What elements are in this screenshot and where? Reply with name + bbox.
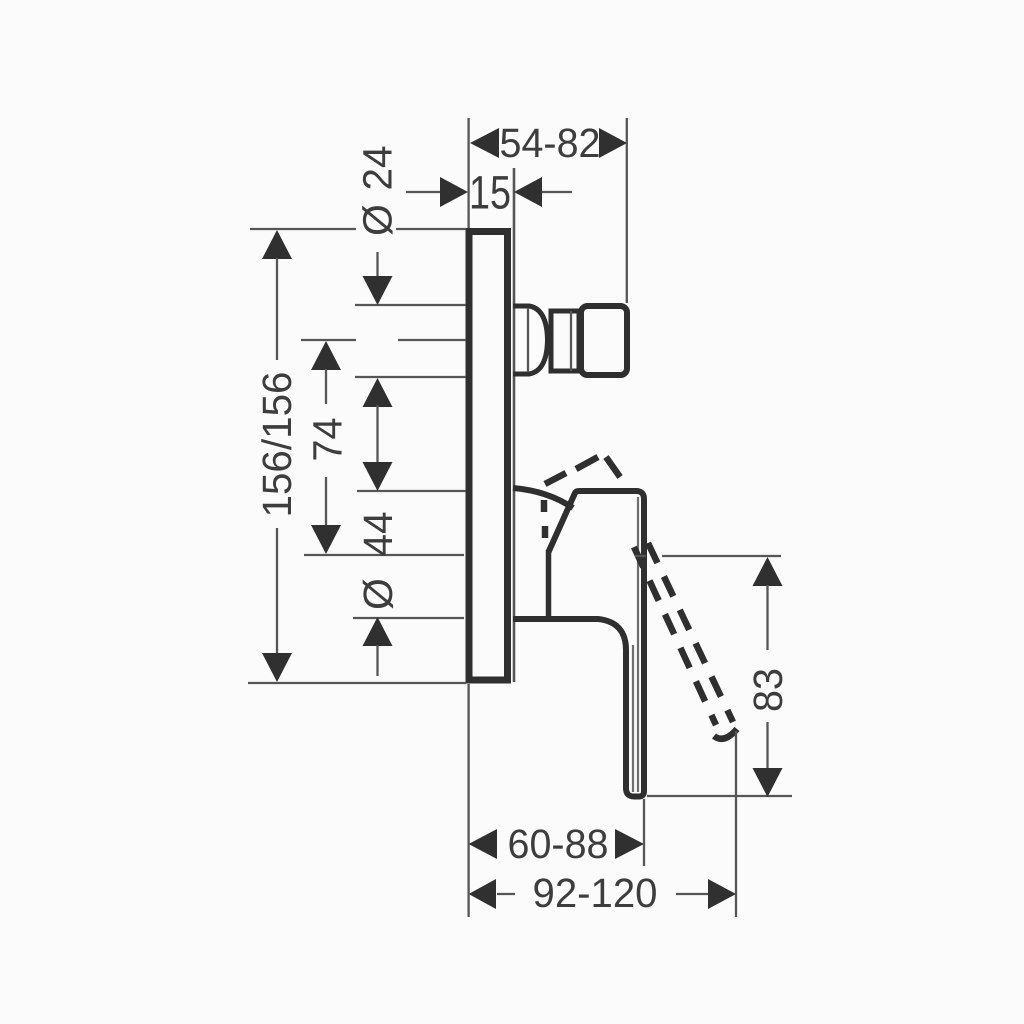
dim 92-120 tail left [497,893,515,895]
dim 15 tail right [542,191,572,193]
axis line hub right [662,555,781,557]
dim 156/156 arrow bottom [262,653,292,682]
dim 54-82 arrow right [599,128,627,158]
dim 74 arrow top [311,341,341,370]
ext line plate top left [250,228,466,230]
ext line knob front top [626,118,628,303]
ext line dashed tip bottom [735,731,737,917]
dim 156/156 line top [276,258,278,360]
top knob collar [513,306,548,374]
ext line left bottom [467,684,469,917]
lever inner contour right [637,497,639,792]
svg-text:83: 83 [745,668,791,712]
handle hub top arc [513,488,573,508]
ext line knob bottom left [355,376,466,378]
axis line hub left [304,554,464,556]
axis tick on lever [635,555,646,557]
dim 74 arrow bottom [311,525,341,554]
dim diam44 arrow middle down [363,462,393,491]
dim 60-88 arrow left [469,829,497,859]
collar inner line [527,308,529,372]
svg-text:60-88: 60-88 [508,821,609,867]
dashed lever up position hidden edge [544,500,545,538]
dashed lever out position edge A [648,543,733,722]
dashed lever out position edge B [634,547,716,725]
dim 83 stem top [766,585,768,650]
ext line plate bottom left [248,682,466,684]
dim 92-120 arrow left [469,879,496,909]
svg-text:74: 74 [305,418,351,462]
dim 83 arrow top [753,557,783,586]
dim 54-82 arrow left [470,128,499,158]
svg-text:44: 44 [355,512,401,557]
dim shared stem [376,405,378,468]
ext line plate front top [467,118,469,228]
dim 92-120 tail right [676,893,708,895]
svg-text:15: 15 [469,166,511,219]
dim 15 tail left [406,191,441,193]
top knob body [581,306,627,375]
dim 15 arrow right [514,177,542,207]
line lever bottom right [647,795,792,797]
wall plate [469,232,508,681]
plate front thin line [513,168,516,682]
ext line hub top left [357,490,466,492]
dim 74 line bottom [325,477,327,527]
dim 92-120 arrow right [708,879,736,909]
center line knob [301,339,466,341]
lever inner contour left [632,645,634,792]
dim diam44 arrow bottom [363,617,393,646]
svg-text:Ø: Ø [355,204,401,236]
dim 60-88 arrow right [615,829,644,859]
handle lever outline [513,491,644,797]
svg-text:156/156: 156/156 [254,372,300,518]
dim diam24 arrow top [363,276,393,305]
dim 74 line top [325,369,327,404]
svg-text:54-82: 54-82 [500,120,601,166]
nut inner line [570,311,572,371]
svg-text:Ø: Ø [355,578,401,610]
dashed lever out position end cap [714,729,737,739]
ext line hub bottom left [353,617,464,619]
dim diam44 stem bottom [376,645,378,676]
dim 156/156 line bottom [276,528,278,655]
ext line lever end bottom [643,799,645,866]
dim 83 arrow bottom [753,768,783,797]
dim 83 stem bottom [766,722,768,768]
handle hub front line [546,550,552,617]
svg-text:92-120: 92-120 [533,870,658,916]
svg-text:24: 24 [355,146,401,191]
dim diam24 stem top [376,252,378,278]
top knob nut [551,311,579,371]
dim 156/156 arrow top [262,230,292,259]
dashed lever up position top edge [545,457,620,484]
ext line knob top left [355,304,466,306]
dim 15 arrow left [440,177,468,207]
dim diam24 arrow middle up [363,378,393,407]
